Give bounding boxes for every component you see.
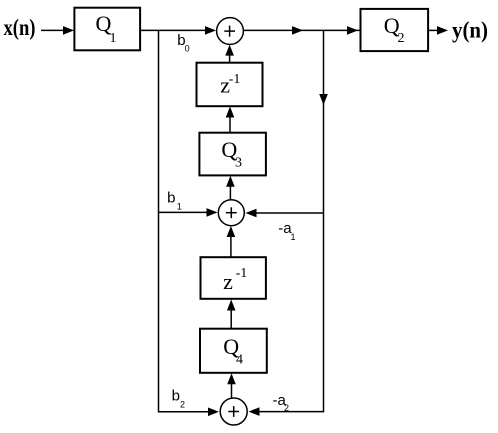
svg-text:2: 2 xyxy=(284,403,289,413)
svg-text:-1: -1 xyxy=(229,72,241,87)
quantizer Q2 xyxy=(361,9,429,51)
wire summer S2 top to Q3 bottom with up arrowhead xyxy=(226,176,235,200)
node b1 label xyxy=(167,189,182,211)
svg-text:1: 1 xyxy=(291,232,296,242)
wire Q4 top to z2 bottom with up arrowhead xyxy=(227,300,236,329)
svg-text:2: 2 xyxy=(180,400,185,410)
wire x(n) to Q1 with arrowhead xyxy=(41,26,74,35)
wire z2 top to summer S2 bottom with up arrowhead xyxy=(227,226,236,257)
wire Q1 to summer S1 with arrowhead, label b0 branch xyxy=(140,26,216,35)
wire -a1 branch right rail to summer S2 with arrowhead xyxy=(246,209,324,218)
wire z1 top to summer S1 bottom with up arrowhead xyxy=(225,45,234,63)
svg-text:b: b xyxy=(167,189,175,206)
wire Q3 top to z1 bottom with up arrowhead xyxy=(226,107,235,133)
svg-text:y(n): y(n) xyxy=(452,18,488,43)
node -a2 label xyxy=(273,392,290,413)
svg-text:x(n): x(n) xyxy=(4,15,36,40)
svg-text:0: 0 xyxy=(185,44,190,54)
svg-text:2: 2 xyxy=(398,31,405,46)
wire S1 to Q2 with mid arrowhead and junction arrowhead xyxy=(244,26,361,35)
summer S2 (middle adder) xyxy=(218,200,244,226)
svg-text:3: 3 xyxy=(235,155,242,170)
wire left feed rail from top line down and to bottom summer xyxy=(159,30,220,416)
wire right feedback rail from output junction down with arrowhead, to bottom summer xyxy=(249,30,328,416)
svg-text:z: z xyxy=(223,269,233,294)
wire Q2 to y(n) with arrowhead xyxy=(428,26,448,35)
quantizer Q4 xyxy=(200,329,267,373)
svg-text:1: 1 xyxy=(177,202,182,212)
node x(n) input label xyxy=(4,15,36,40)
node b2 label xyxy=(172,388,185,410)
svg-text:b: b xyxy=(172,388,180,405)
node -a1 label xyxy=(278,220,295,242)
svg-text:-1: -1 xyxy=(236,266,248,281)
svg-text:1: 1 xyxy=(110,31,117,46)
delay z^-1 lower xyxy=(201,257,266,299)
quantizer Q3 xyxy=(199,133,266,176)
svg-text:4: 4 xyxy=(236,352,243,367)
quantizer Q1 xyxy=(74,8,140,51)
delay z^-1 upper xyxy=(197,63,263,106)
wire summer S3 top to Q4 bottom with up arrowhead xyxy=(227,373,236,398)
wire b1 branch left rail to summer S2 with arrowhead xyxy=(159,208,218,217)
summer S1 (top adder) xyxy=(217,18,244,45)
node y(n) output label xyxy=(452,18,488,43)
node b0 label xyxy=(177,32,189,54)
summer S3 (bottom adder) xyxy=(220,398,247,425)
